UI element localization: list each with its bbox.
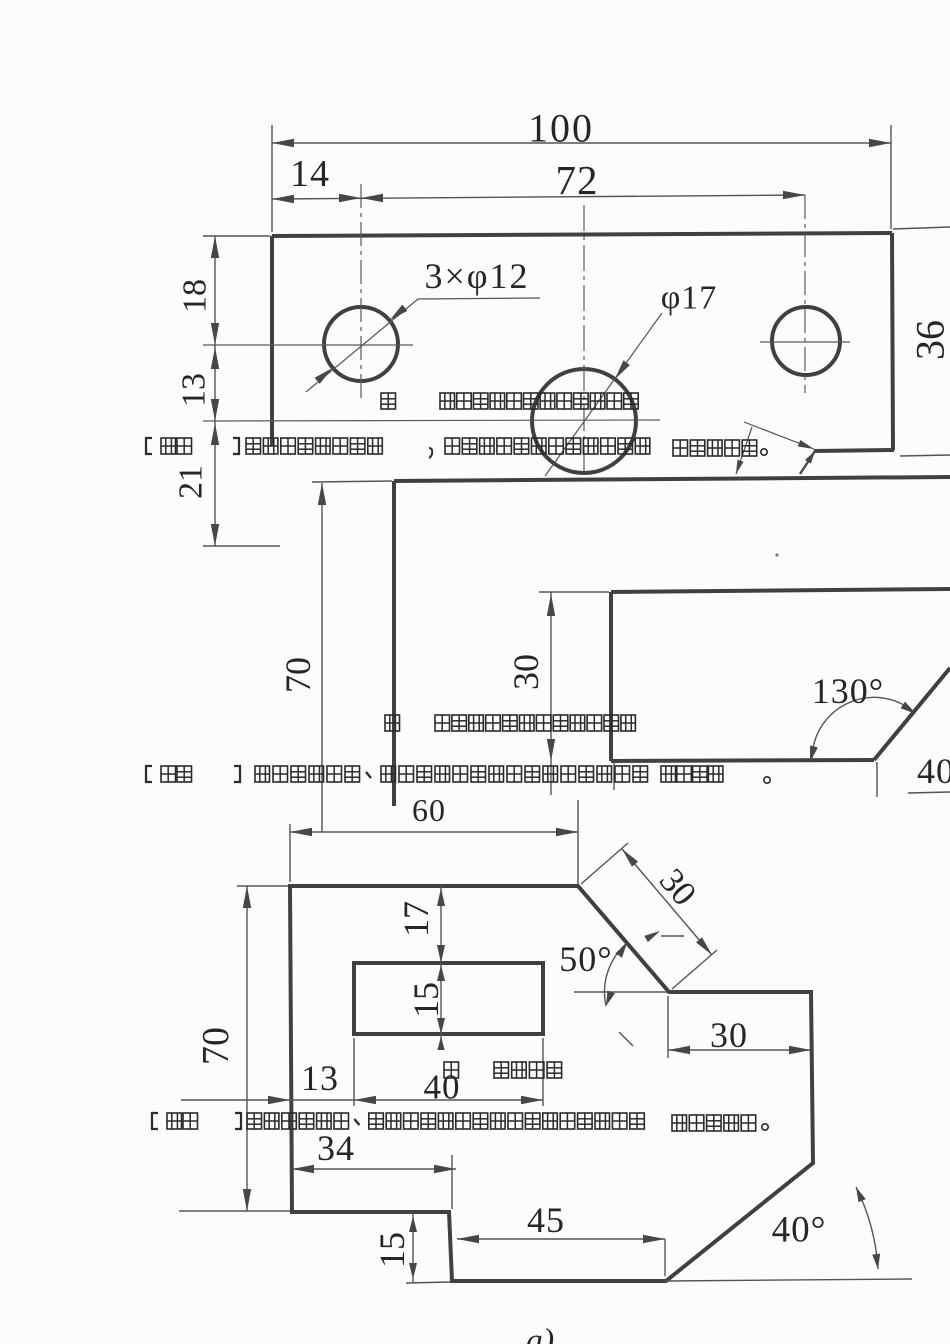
svg-text:13: 13: [301, 1058, 339, 1098]
caption A : tu liyong mubiaobuzhuo gongneng huizhi tuxing: [381, 393, 638, 409]
angle 40 deg: [665, 1187, 912, 1281]
caption B : tu liyong jizhouzhuizong gongneng huizhi tuxing: [385, 715, 635, 731]
svg-text:40: 40: [917, 751, 950, 791]
dimension 45: [457, 1200, 665, 1276]
centerline hole C3 vertical: [804, 195, 806, 393]
hole C2 (middle, phi17): [532, 369, 636, 473]
angle 50 deg: [559, 939, 667, 1046]
svg-text:17: 17: [396, 901, 436, 937]
figure C outline: [290, 886, 813, 1281]
figure B outer top edge: [394, 477, 950, 481]
figure B diagonal edge 130deg: [874, 668, 950, 760]
centerline hole C3 horizontal: [760, 341, 850, 343]
dimension 17: [396, 886, 445, 963]
dimension 30 (slanted): [581, 843, 717, 989]
figure B outer left edge: [392, 481, 396, 806]
caption C : tu zonghelianxi: [444, 1062, 562, 1078]
text row 3 : xiti ... jiang tu xiugai wei tu: [146, 766, 770, 783]
centerline hole C1 vertical: [360, 184, 362, 400]
dimension 70 (figure B): [278, 481, 392, 832]
dimension 40 (figure B right, clipped): [877, 751, 950, 797]
svg-text:18: 18: [177, 279, 214, 313]
svg-text:15: 15: [372, 1232, 412, 1268]
svg-text:50°: 50°: [559, 939, 612, 979]
scan speck: [775, 553, 778, 556]
svg-text:21: 21: [173, 465, 210, 499]
leader 3xphi12 diagonal through hole C1: [306, 298, 540, 392]
svg-text:30: 30: [506, 654, 546, 690]
centerline hole C2 vertical: [583, 205, 585, 476]
dimension 60: [290, 792, 578, 884]
svg-text:15: 15: [406, 982, 446, 1018]
dimension 34: [292, 1128, 456, 1209]
svg-text:40: 40: [424, 1068, 461, 1107]
plate outline (top): [272, 233, 894, 451]
svg-text:70: 70: [278, 657, 318, 693]
figure C inner rectangle: [354, 963, 543, 1034]
angle 130 deg arc: [810, 671, 916, 762]
svg-text:3×φ12: 3×φ12: [424, 256, 529, 296]
leader remnant arrows near plate bottom right: [736, 422, 815, 474]
svg-text:45: 45: [527, 1200, 565, 1240]
figure B inner left edge: [609, 592, 613, 761]
dimension 100: [272, 106, 891, 233]
text row 4 : xiti ... huizhi tu suoshi de tuxing: [152, 1113, 768, 1131]
leader phi17: [545, 313, 662, 476]
svg-text:34: 34: [317, 1128, 355, 1168]
dimension 13 / 40: [181, 1038, 543, 1107]
figure B inner top edge: [611, 589, 950, 592]
svg-text:a): a): [526, 1323, 554, 1344]
svg-text:14: 14: [290, 153, 330, 195]
svg-text:100: 100: [528, 106, 594, 151]
svg-text:30: 30: [652, 861, 704, 913]
page label a): [526, 1323, 554, 1344]
figure B inner bottom edge: [611, 760, 874, 761]
svg-text:13: 13: [176, 373, 213, 407]
dimension 15 (step): [372, 1212, 450, 1283]
label 3x phi 12: [424, 256, 529, 296]
svg-text:φ17: φ17: [661, 280, 718, 317]
svg-text:60: 60: [412, 792, 446, 828]
dimension 14 and 72: [272, 153, 805, 203]
left dimensions 18 13 21: [173, 236, 281, 546]
svg-text:40°: 40°: [772, 1210, 827, 1251]
svg-text:70: 70: [195, 1027, 237, 1065]
small extension below inner corner: [613, 762, 615, 790]
hole C3 (right): [772, 307, 840, 375]
text row 2 : xiti dakaijizhouzhuizongmoshi ...: [146, 438, 767, 458]
dimension 30 (right step): [668, 996, 811, 1058]
dimension 30 (figure B): [506, 592, 609, 795]
dimension 15 (inner rect): [406, 963, 446, 1050]
dimension 70 (figure C): [179, 886, 290, 1211]
svg-text:72: 72: [556, 157, 599, 203]
centerline hole C2 horizontal long: [203, 420, 660, 421]
svg-text:30: 30: [710, 1015, 748, 1055]
label phi17: [661, 280, 718, 317]
centerline hole row horizontal: [203, 344, 413, 346]
dimension 36 right: [893, 227, 950, 456]
hole C1 (left, phi12): [324, 307, 398, 381]
svg-text:36: 36: [908, 320, 950, 360]
svg-text:130°: 130°: [812, 671, 884, 711]
